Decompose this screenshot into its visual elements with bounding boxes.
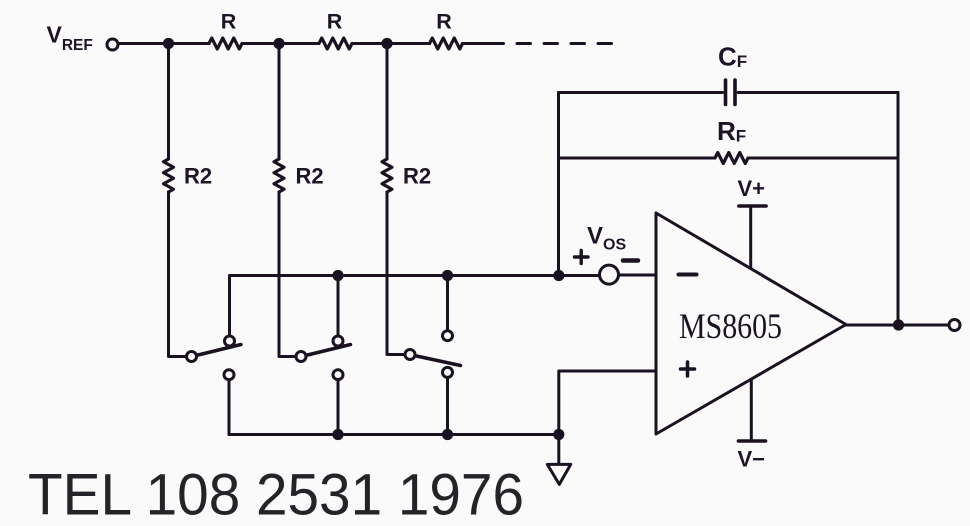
svg-text:V+: V+ <box>738 176 766 201</box>
wire feedback left vertical <box>557 93 560 276</box>
wire VOS right to op-amp <box>620 274 656 277</box>
wire VREF to node N1 <box>120 42 169 45</box>
switch S1 lower contact <box>224 370 234 380</box>
wire op-amp output <box>846 324 948 327</box>
svg-text:R: R <box>327 10 343 34</box>
source VOS <box>600 265 619 284</box>
svg-text:R: R <box>221 10 237 34</box>
node bottom bus junction G3 <box>442 429 453 440</box>
node bottom bus junction G2 <box>332 429 343 440</box>
wire RF left <box>559 157 716 160</box>
wire N2 to R2h <box>279 42 319 45</box>
wire ground junction to ground symbol <box>557 435 560 464</box>
wire bus to switch S3 pole <box>446 276 449 330</box>
resistor R2 (second shunt) <box>274 159 284 192</box>
resistor R2 (first shunt) <box>164 159 174 192</box>
V+ supply rail bar <box>739 204 766 208</box>
wire inverting bus <box>230 276 559 335</box>
op-amp inverting input marker <box>679 273 697 277</box>
wire S1 lower contact to bottom bus <box>228 381 231 435</box>
wire S2 lower contact to bottom bus <box>337 381 340 435</box>
node inverting bus / VOS junction <box>553 270 564 281</box>
switch S1 pole contact <box>225 336 235 346</box>
ground <box>547 464 570 484</box>
VOS minus polarity mark <box>623 258 638 263</box>
node N2 junction <box>273 38 284 49</box>
op-amp U1 MS8605 body <box>656 213 846 434</box>
switch S1 blade <box>198 345 241 356</box>
resistor RF <box>715 153 748 164</box>
wire dashed ladder continuation <box>490 42 612 45</box>
wire RF right <box>748 157 898 160</box>
wire V- supply stem <box>750 380 753 440</box>
resistor R2h (second series R) <box>319 38 352 49</box>
wire CF right <box>738 91 898 94</box>
node ground junction <box>553 429 564 440</box>
V- supply rail bar <box>738 439 765 443</box>
wire S3 lower contact to bottom bus <box>446 379 449 435</box>
wire R2h to node N3 <box>352 42 387 45</box>
wire N1 to R1 <box>169 42 210 45</box>
switch S3 blade (thrown down) <box>417 356 461 366</box>
wire R3h continuation <box>463 42 490 45</box>
wire N3 down to R2 vertical 3 <box>386 44 389 160</box>
node VREF input terminal <box>107 39 118 50</box>
wire N2 down to R2 vertical 2 <box>278 44 281 160</box>
svg-text:R2: R2 <box>184 164 212 189</box>
resistor R1 <box>209 38 242 49</box>
wire non-inverting input to ground <box>559 371 656 435</box>
capacitor CF <box>726 80 736 105</box>
wire R2-3 lead down to switch S3 throw stub <box>387 192 404 355</box>
svg-text:R: R <box>436 10 452 34</box>
svg-text:V−: V− <box>738 447 766 472</box>
wire R1 to node N2 <box>242 42 279 45</box>
switch S2 pole contact <box>333 336 343 346</box>
wire V+ supply stem <box>749 207 752 268</box>
switch S3 pole contact <box>443 331 453 341</box>
wire N1 down to R2 vertical 1 <box>167 44 170 160</box>
resistor R2 (third shunt) <box>382 159 392 192</box>
switch S3 lower contact <box>443 367 453 377</box>
node output terminal <box>949 320 960 331</box>
switch S3 throw contact (R2 side) <box>405 350 415 360</box>
node output junction <box>893 319 904 330</box>
op-amp non-inverting input marker <box>681 362 695 376</box>
wire R2-1 lead down to switch S1 throw stub <box>169 192 186 357</box>
svg-text:R2: R2 <box>403 164 431 189</box>
svg-text:MS8605: MS8605 <box>679 306 782 346</box>
resistor R3h (third series R) <box>430 38 463 49</box>
wire VOS to op-amp inverting input <box>559 274 599 277</box>
switch S2 blade <box>308 345 351 356</box>
switch S1 throw contact (R2 side) <box>187 352 197 362</box>
wire N3 to R3h <box>387 42 430 45</box>
node bus junction B2 <box>332 270 343 281</box>
node bus junction B3 <box>442 270 453 281</box>
VOS plus polarity mark <box>575 251 589 264</box>
wire CF left <box>559 91 723 94</box>
wire bus to switch S2 pole <box>337 276 340 335</box>
node N3 junction <box>381 38 392 49</box>
wire feedback right vertical <box>897 93 900 326</box>
switch S2 throw contact (R2 side) <box>296 352 306 362</box>
wire bottom bus <box>229 433 559 436</box>
node N1 junction <box>163 38 174 49</box>
svg-text:TEL 108 2531 1976: TEL 108 2531 1976 <box>28 463 524 526</box>
wire R2-2 lead down to switch S2 throw stub <box>279 192 295 357</box>
svg-text:R2: R2 <box>296 164 324 189</box>
switch S2 lower contact <box>333 370 343 380</box>
